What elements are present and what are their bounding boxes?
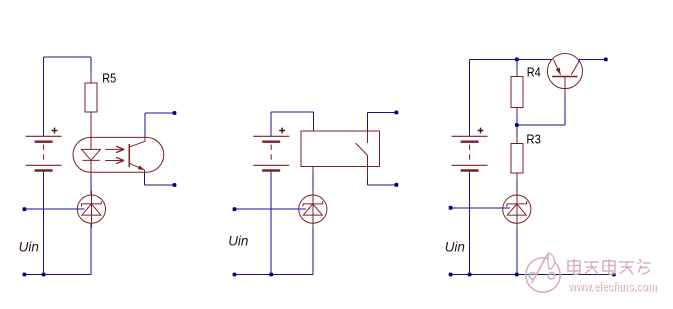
svg-text:Uin: Uin — [445, 239, 465, 254]
svg-text:R3: R3 — [526, 132, 541, 146]
svg-text:R4: R4 — [527, 66, 541, 80]
svg-text:www.elecfans.com: www.elecfans.com — [567, 278, 656, 293]
svg-text:R5: R5 — [102, 72, 116, 86]
svg-text:Uin: Uin — [19, 239, 39, 254]
svg-text:Uin: Uin — [228, 233, 248, 248]
